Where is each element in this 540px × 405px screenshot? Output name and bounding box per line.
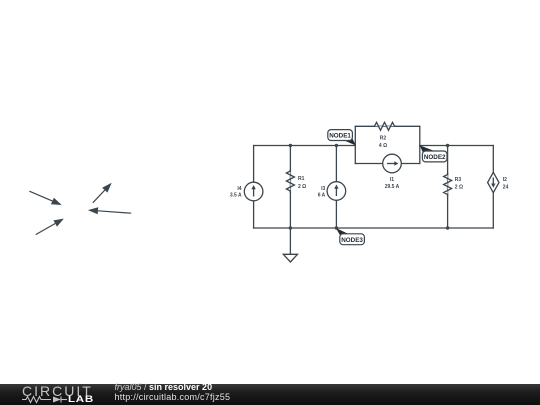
footer text line 1	[115, 383, 213, 392]
svg-text:24: 24	[503, 184, 509, 190]
node NODE3 label box	[340, 234, 365, 245]
footer bar	[0, 384, 540, 405]
resistor R1 labels	[298, 176, 306, 190]
ground	[283, 254, 297, 262]
node NODE2 label box	[422, 151, 447, 162]
wire R2 loop right vertical	[419, 126, 421, 163]
current source I4	[244, 182, 263, 201]
node NODE2 pointer	[420, 145, 434, 152]
current source I3 labels	[318, 186, 326, 198]
annotation arrow D (lower, pointing up-right)	[36, 219, 64, 235]
current source I1	[383, 154, 402, 173]
junction dot NODE3 net at I3	[335, 226, 338, 229]
junction dot NODE3 net at R3	[446, 226, 449, 229]
svg-text:I4: I4	[237, 186, 241, 192]
svg-text:I2: I2	[503, 177, 507, 183]
wire R2 loop bottom horizontal (I1 branch)	[355, 163, 420, 165]
node NODE1 pointer	[344, 139, 356, 146]
wire I2 branch vertical	[492, 146, 494, 229]
wire R3 branch vertical	[447, 146, 449, 229]
wire R2 loop top horizontal	[355, 125, 420, 127]
svg-text:R2: R2	[380, 136, 387, 142]
svg-text:29.5 A: 29.5 A	[385, 184, 400, 190]
svg-text:NODE1: NODE1	[329, 133, 351, 140]
svg-text:I1: I1	[390, 177, 394, 183]
CircuitLab logo resistor+diode glyph	[21, 395, 71, 405]
svg-text:4 Ω: 4 Ω	[379, 143, 387, 149]
CircuitLab logo wordmark LAB	[68, 395, 94, 404]
wire I3 branch vertical	[335, 146, 337, 229]
svg-text:R1: R1	[298, 176, 305, 182]
annotation arrow A (upper-left, pointing down-right)	[29, 191, 61, 205]
resistor R3 labels	[455, 177, 463, 190]
svg-text:R3: R3	[455, 177, 462, 183]
annotation arrow B (pointing up-right)	[93, 183, 112, 203]
current source I1 labels	[385, 177, 400, 190]
dependent current source I2 (diamond)	[488, 172, 499, 192]
wire top-left horizontal (NODE1 net)	[254, 145, 356, 147]
junction dot NODE2 net at R3	[446, 144, 449, 147]
resistor R2	[373, 122, 397, 130]
svg-text:I3: I3	[321, 186, 325, 192]
footer text line 2	[115, 393, 231, 402]
junction dot NODE1 net at I3	[335, 144, 338, 147]
resistor R1	[286, 169, 294, 193]
resistor R2 labels	[379, 136, 387, 150]
current source I4 labels	[230, 186, 242, 198]
svg-text:2 Ω: 2 Ω	[298, 184, 306, 190]
current source I3	[327, 182, 346, 201]
wire ground stem	[289, 228, 291, 254]
svg-text:3.5 A: 3.5 A	[230, 193, 242, 199]
resistor R3	[444, 173, 452, 197]
node NODE1 label box	[328, 130, 353, 141]
junction dot NODE3 net at R1	[289, 226, 292, 229]
svg-text:NODE3: NODE3	[341, 237, 363, 244]
svg-text:2 Ω: 2 Ω	[455, 184, 463, 190]
wire left vertical (I4 branch)	[253, 146, 255, 229]
wire R1 branch vertical	[289, 146, 291, 229]
wire R2 loop left vertical	[354, 126, 356, 163]
annotation arrow C (pointing left)	[88, 207, 131, 214]
node NODE3 pointer	[336, 228, 348, 235]
junction dot NODE1 net at R1	[289, 144, 292, 147]
wire bottom horizontal (NODE3 net)	[254, 227, 494, 229]
svg-text:NODE2: NODE2	[424, 154, 446, 161]
wire top-right horizontal (NODE2 net)	[420, 145, 494, 147]
svg-text:6 A: 6 A	[318, 192, 326, 198]
dependent source I2 labels	[503, 177, 509, 190]
CircuitLab logo wordmark CIRCUIT	[22, 384, 93, 398]
